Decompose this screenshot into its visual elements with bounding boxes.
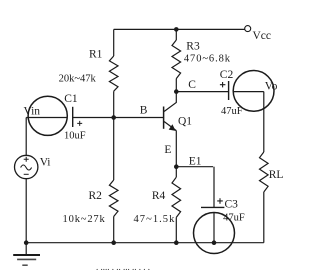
- junction dot top R3: [174, 27, 179, 32]
- node Vo circle: [233, 71, 274, 112]
- capacitor C2 plate: [228, 81, 230, 100]
- ground: [25, 243, 27, 255]
- svg-text:C: C: [188, 79, 196, 91]
- node Vin circle: [28, 96, 67, 135]
- svg-text:Vin: Vin: [24, 106, 41, 118]
- svg-text:C2: C2: [220, 69, 234, 81]
- resistor R2: [109, 180, 118, 217]
- wire R1 bottom to base node: [113, 91, 115, 117]
- transistor Q1 emitter: [164, 122, 176, 131]
- junction dot rail Vi: [24, 240, 29, 245]
- source Vi plus: [24, 157, 29, 162]
- wire R3 branch top: [175, 29, 177, 40]
- svg-text:C3: C3: [225, 199, 239, 211]
- svg-text:470~6.8k: 470~6.8k: [184, 53, 231, 64]
- resistor R1: [109, 56, 118, 91]
- wire C3 upper: [213, 167, 215, 207]
- resistor R3: [172, 40, 181, 79]
- wire R2 bottom: [113, 217, 115, 243]
- circle around C3 bottom: [194, 213, 235, 254]
- capacitor C1 plate: [72, 107, 74, 127]
- transistor Q1 emitter arrow: [169, 124, 176, 131]
- wire RL bottom: [263, 192, 265, 243]
- wire emitter down: [175, 131, 177, 178]
- svg-text:R4: R4: [152, 190, 166, 202]
- svg-text:20k~47k: 20k~47k: [59, 74, 97, 85]
- svg-text:. .... . .. ... .. . . .: . .... . .. ... .. . . .: [96, 262, 150, 272]
- svg-text:47uF: 47uF: [221, 106, 243, 117]
- wire C node to C2: [176, 91, 228, 93]
- source Vi minus: [24, 173, 29, 175]
- wire R4 bottom: [175, 217, 177, 242]
- junction dot node B: [111, 115, 116, 120]
- svg-text:R3: R3: [186, 41, 200, 53]
- wire R3 bottom to C node: [175, 79, 177, 92]
- wire R2 branch: [113, 118, 115, 181]
- svg-text:R2: R2: [89, 190, 103, 202]
- capacitor C3 plus sign: [217, 198, 223, 204]
- resistor R4: [172, 177, 181, 217]
- transistor Q1 collector: [164, 92, 176, 112]
- wire E1 horizontal: [176, 166, 213, 168]
- junction dot node E1: [174, 164, 179, 169]
- junction dot node C: [174, 89, 179, 94]
- wire Vi branch upper: [25, 118, 27, 156]
- svg-text:RL: RL: [269, 169, 284, 181]
- capacitor C1 plus sign: [77, 121, 82, 126]
- capacitor C2 plus sign: [220, 82, 226, 87]
- source Vi circle: [15, 155, 38, 178]
- wire C1 to base: [73, 117, 164, 119]
- svg-text:10uF: 10uF: [64, 130, 86, 141]
- junction dot rail C3: [212, 240, 217, 245]
- source Vi sine: [21, 165, 32, 170]
- transistor Q1 base bar: [163, 107, 165, 129]
- svg-text:47uF: 47uF: [223, 213, 245, 224]
- junction dot rail R2: [111, 240, 116, 245]
- wire input line left: [26, 117, 67, 119]
- svg-text:Vo: Vo: [265, 81, 278, 93]
- svg-text:B: B: [140, 105, 148, 117]
- wire top rail: [114, 28, 245, 30]
- svg-text:47~1.5k: 47~1.5k: [134, 214, 176, 225]
- wire bottom rail: [26, 242, 264, 244]
- svg-text:10k~27k: 10k~27k: [63, 214, 106, 225]
- svg-text:Q1: Q1: [178, 116, 192, 128]
- svg-text:E: E: [164, 144, 171, 156]
- junction dot rail R4: [174, 240, 179, 245]
- wire C2 to output corner: [234, 91, 264, 93]
- svg-text:R1: R1: [89, 49, 103, 61]
- terminal Vcc circle: [245, 26, 251, 32]
- svg-text:C1: C1: [64, 93, 78, 105]
- wire R1 branch top: [113, 29, 115, 56]
- svg-text:Vi: Vi: [40, 156, 51, 168]
- svg-text:Vcc: Vcc: [253, 30, 272, 42]
- svg-text:E1: E1: [189, 156, 202, 168]
- resistor RL: [260, 152, 269, 192]
- faint caption remnant: [96, 262, 150, 272]
- capacitor C3 plate: [201, 206, 224, 208]
- wire Vi branch lower: [25, 179, 27, 243]
- wire RL branch top: [263, 92, 265, 152]
- wire C3 lower: [213, 213, 215, 243]
